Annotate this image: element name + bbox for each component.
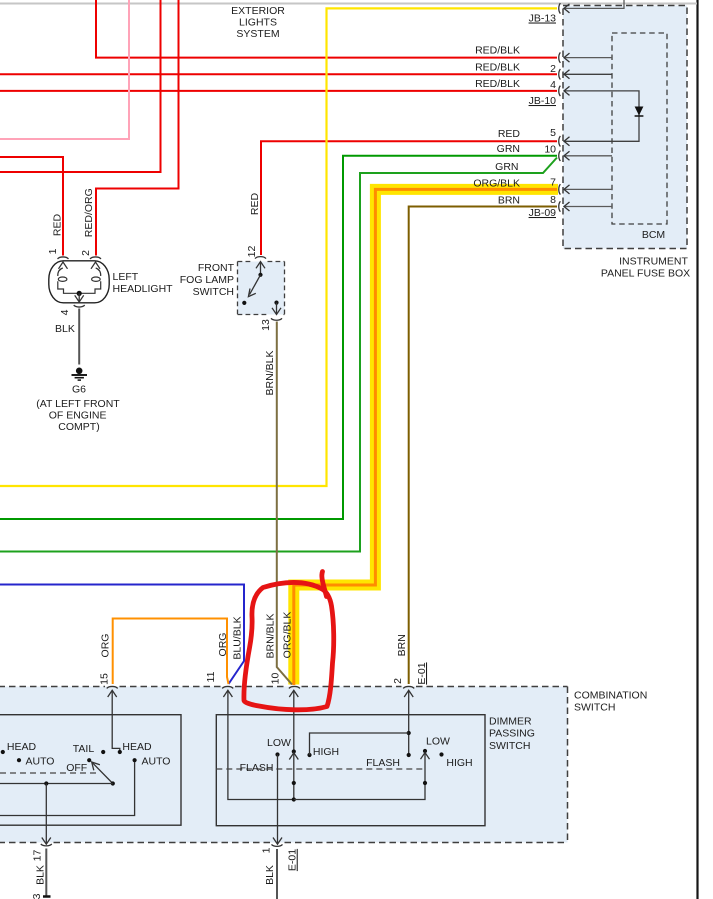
label FLASH left xyxy=(240,762,274,774)
svg-text:BRN: BRN xyxy=(396,634,408,656)
svg-text:2: 2 xyxy=(392,678,404,684)
pin 2 headlight xyxy=(80,250,92,256)
label JB-09 xyxy=(529,207,557,219)
wire YEL JB-13 to left edge xyxy=(0,8,557,486)
svg-text:TAIL: TAIL xyxy=(73,743,95,755)
label LOW left xyxy=(267,737,291,749)
pin 2 arrow and wire to flash contact xyxy=(404,690,413,755)
fog switch contact pin 12 xyxy=(258,273,262,277)
label G6 xyxy=(72,384,86,396)
svg-text:FOG LAMP: FOG LAMP xyxy=(180,274,234,286)
svg-text:RED: RED xyxy=(498,128,521,140)
svg-text:8: 8 xyxy=(550,194,556,206)
svg-text:LOW: LOW xyxy=(267,737,291,749)
svg-text:FLASH: FLASH xyxy=(366,757,400,769)
label RED/BLK row 3 xyxy=(475,78,520,90)
svg-text:JB-13: JB-13 xyxy=(529,13,557,25)
svg-text:ORG: ORG xyxy=(100,634,112,658)
headlight pin 1 arrow xyxy=(59,262,68,269)
svg-text:LEFT: LEFT xyxy=(113,271,139,283)
headlight pin 4 connector arc xyxy=(74,305,85,307)
label BLK pin 17 xyxy=(35,865,47,885)
svg-text:EXTERIOR: EXTERIOR xyxy=(231,5,285,17)
label COMBINATION SWITCH xyxy=(574,689,647,713)
svg-text:1: 1 xyxy=(47,248,59,254)
pin 10 fuse box xyxy=(544,143,556,155)
svg-text:BLK: BLK xyxy=(55,323,75,335)
label HIGH right xyxy=(446,757,472,769)
node E-01 bottom xyxy=(287,849,299,871)
fog switch pin 13 arrow down xyxy=(272,303,281,315)
label BRN/BLK rotated fog xyxy=(264,351,276,396)
label JB-10 xyxy=(529,95,557,107)
lighting switch rail to pin 17 xyxy=(0,781,113,844)
fuse box internal link pin 10 xyxy=(564,155,612,157)
pin 11 arrow and wire to lever rail xyxy=(223,690,293,799)
svg-text:PASSING: PASSING xyxy=(489,727,535,739)
wire BLK headlight to ground xyxy=(78,309,80,365)
fog switch contact pin 13 xyxy=(274,301,278,305)
label ORG/BLK rotated pin 10 xyxy=(281,612,293,659)
svg-text:SWITCH: SWITCH xyxy=(574,702,615,714)
svg-text:JB-09: JB-09 xyxy=(529,207,557,219)
node E-01 top xyxy=(416,662,428,684)
fuse box internal link row 1 xyxy=(564,57,612,59)
svg-text:11: 11 xyxy=(205,671,217,682)
combination pin 10 connector arc xyxy=(289,686,300,688)
pin 1 headlight xyxy=(47,248,59,254)
BCM box U1 xyxy=(612,33,667,224)
svg-text:15: 15 xyxy=(99,673,111,685)
fuse box internal link pin 7 xyxy=(564,188,612,190)
wire RED/BLK row 2 xyxy=(0,73,557,75)
dimmer contact HIGH left xyxy=(307,753,311,757)
svg-text:RED/BLK: RED/BLK xyxy=(475,62,520,74)
ground G6 xyxy=(72,368,88,381)
svg-text:HIGH: HIGH xyxy=(313,746,339,758)
wire ORG/BLK fuse pin 7 to combination switch pin 10 xyxy=(294,189,557,685)
svg-text:1: 1 xyxy=(261,847,273,853)
label GRN second xyxy=(495,161,518,173)
label LOW right xyxy=(426,736,450,748)
headlight pin 2 arrow xyxy=(91,262,100,269)
wire RED/BLK row 3 xyxy=(0,90,557,92)
svg-text:COMBINATION: COMBINATION xyxy=(574,689,647,701)
svg-text:SWITCH: SWITCH xyxy=(489,740,530,752)
lighting switch contact AUTO left xyxy=(17,758,21,762)
pin 17 terminal bar xyxy=(43,895,51,898)
wire BRN fuse pin 8 to dimmer pin 2 xyxy=(409,207,557,685)
diode D1 xyxy=(635,107,644,117)
fuse box internal link pin 8 xyxy=(564,206,612,208)
headlight pin 4 arrow down xyxy=(75,293,84,302)
svg-text:PANEL FUSE BOX: PANEL FUSE BOX xyxy=(601,268,690,280)
pin 17 label xyxy=(32,850,44,862)
pin 15 xyxy=(99,673,111,685)
label OFF xyxy=(66,762,87,774)
label BLK pin 1 xyxy=(264,865,276,885)
wire RED fog switch pin 12 to fuse box pin 5 xyxy=(261,141,557,255)
wire RED to left headlight pin 1 xyxy=(0,157,63,256)
dimmer passing switch inner box xyxy=(216,715,485,826)
label BRN/BLK rotated pin 10 xyxy=(265,614,277,659)
wire RED/BLK vertical from top xyxy=(96,0,557,58)
label GRN xyxy=(497,143,520,155)
wire BRN/BLK fog switch pin 13 to combination pin 10 xyxy=(277,322,292,685)
pin 15 arrow and wire to HEAD contact xyxy=(108,690,120,751)
label DIMMER PASSING SWITCH xyxy=(489,715,535,752)
svg-text:LOW: LOW xyxy=(426,736,450,748)
svg-text:OF ENGINE: OF ENGINE xyxy=(49,409,107,421)
label RED/BLK row 1 xyxy=(475,44,520,56)
label BLU/BLK rotated xyxy=(232,616,244,659)
combination pin 11 connector arc xyxy=(222,686,233,688)
svg-text:GRN: GRN xyxy=(495,161,518,173)
svg-text:FLASH: FLASH xyxy=(240,762,274,774)
svg-text:BRN/BLK: BRN/BLK xyxy=(265,614,277,659)
svg-text:LIGHTS: LIGHTS xyxy=(239,17,277,29)
label BLK headlight xyxy=(55,323,75,335)
instrument panel fuse box xyxy=(563,6,687,249)
label HEAD right xyxy=(122,741,152,753)
svg-text:3: 3 xyxy=(31,893,43,899)
label ORG rotated pin 15 xyxy=(100,634,112,658)
label AT LEFT FRONT OF ENGINE COMPT xyxy=(36,398,120,433)
label FRONT FOG LAMP SWITCH xyxy=(180,262,235,298)
lighting switch wire AUTO to left edge xyxy=(0,762,135,816)
svg-text:INSTRUMENT: INSTRUMENT xyxy=(619,255,688,267)
svg-text:RED: RED xyxy=(249,192,261,215)
label TAIL xyxy=(73,743,95,755)
label HEAD left xyxy=(7,741,37,753)
svg-text:AUTO: AUTO xyxy=(142,756,171,768)
label RED xyxy=(498,128,521,140)
label ORG rotated pin 11 xyxy=(217,633,229,657)
svg-text:BLK: BLK xyxy=(35,865,47,885)
wire BLU to combination switch pin 11 xyxy=(0,585,244,685)
pin 4 headlight xyxy=(59,309,71,315)
svg-text:2: 2 xyxy=(550,63,556,75)
label RED rotated fog xyxy=(249,192,261,215)
svg-text:4: 4 xyxy=(59,309,71,315)
svg-text:17: 17 xyxy=(32,850,44,862)
dimmer linkage dashed xyxy=(216,768,425,770)
wire BLK combination pin 17 xyxy=(45,849,47,896)
lighting switch contact AUTO right xyxy=(133,758,137,762)
connector arcs fuse box left edge xyxy=(559,3,561,212)
fuse box internal link JB-13 xyxy=(564,0,624,8)
svg-text:GRN: GRN xyxy=(497,143,520,155)
svg-text:E-01: E-01 xyxy=(416,662,428,684)
svg-text:BLU/BLK: BLU/BLK xyxy=(232,616,244,659)
lighting switch inner box xyxy=(0,715,181,826)
pin 10 arrow and dimmer left lever line xyxy=(289,690,298,799)
pin 7 fuse box xyxy=(550,177,556,189)
combination pin 1 connector arc xyxy=(272,844,283,846)
wire RED/ORG to left headlight pin 2 xyxy=(96,0,179,256)
pin 11 xyxy=(205,671,217,682)
label BRN xyxy=(498,194,520,206)
pin 1 label bottom xyxy=(261,847,273,853)
lighting switch lever xyxy=(92,762,115,786)
headlight pin 1 connector arc xyxy=(58,257,69,259)
svg-text:4: 4 xyxy=(550,79,556,91)
headlight pin 2 connector arc xyxy=(90,257,101,259)
fog switch pin 12 arrow xyxy=(256,262,265,275)
combination pin 15 connector arc xyxy=(107,686,118,688)
label RED/ORG rotated xyxy=(83,188,95,237)
svg-text:10: 10 xyxy=(544,143,556,155)
svg-text:7: 7 xyxy=(550,177,556,189)
fuse box internal link JB-10 to pin 5 through diode xyxy=(564,91,639,141)
wire GRN second to left edge xyxy=(0,158,557,552)
dimmer contact HIGH right xyxy=(439,752,443,756)
svg-text:DIMMER: DIMMER xyxy=(489,715,532,727)
label FLASH right xyxy=(366,757,400,769)
dimmer left lever dots and arrow xyxy=(289,749,298,801)
label BRN rotated pin 2 xyxy=(396,634,408,656)
wire BLK dimmer pin 1 to E-01 xyxy=(276,849,278,899)
lighting switch contact OFF xyxy=(87,758,91,762)
fog switch pin 13 connector arc xyxy=(271,318,282,320)
label HIGH left xyxy=(313,746,339,758)
svg-text:BCM: BCM xyxy=(642,229,665,241)
pin 4 fuse box xyxy=(550,79,556,91)
svg-text:HEADLIGHT: HEADLIGHT xyxy=(113,283,174,295)
dimmer contact LOW left xyxy=(275,752,279,756)
headlight low beam filament xyxy=(58,268,79,293)
combination pin 17 connector arc xyxy=(41,844,52,846)
wire grey top rail xyxy=(0,3,697,5)
svg-text:RED/ORG: RED/ORG xyxy=(83,188,95,237)
pin 5 fuse box xyxy=(550,127,556,139)
svg-text:12: 12 xyxy=(246,246,258,258)
svg-text:BRN/BLK: BRN/BLK xyxy=(264,351,276,396)
lighting switch contact HEAD left xyxy=(1,750,5,754)
highlight marker on ORG/BLK circuit xyxy=(294,189,558,684)
connector arrows fuse box pointing left xyxy=(564,4,570,211)
svg-text:HEAD: HEAD xyxy=(7,741,37,753)
node EXTERIOR LIGHTS SYSTEM xyxy=(231,5,285,40)
svg-text:5: 5 xyxy=(550,127,556,139)
svg-text:E-01: E-01 xyxy=(287,849,299,871)
svg-text:HEAD: HEAD xyxy=(122,741,152,753)
label JB-13 xyxy=(529,13,557,25)
label RED rotated headlight pin 1 xyxy=(52,213,64,236)
svg-text:OFF: OFF xyxy=(66,762,87,774)
fog switch pin 12 connector arc xyxy=(255,257,266,259)
pin 10 combination xyxy=(269,673,281,685)
label BCM xyxy=(642,229,665,241)
lighting switch linkage dashed xyxy=(0,772,97,774)
left headlight body xyxy=(49,261,109,303)
lighting switch contact TAIL xyxy=(101,750,105,754)
svg-text:BLK: BLK xyxy=(264,865,276,885)
headlight high beam filament xyxy=(79,268,101,293)
svg-text:ORG/BLK: ORG/BLK xyxy=(281,612,293,659)
svg-text:ORG: ORG xyxy=(217,633,229,657)
svg-text:G6: G6 xyxy=(72,384,86,396)
dimmer LOW left wire down to pin 1 xyxy=(273,755,282,845)
fog switch contact lower left xyxy=(242,301,246,305)
pin 2 combination xyxy=(392,678,404,684)
pin 13 fog xyxy=(260,319,272,331)
label AUTO right xyxy=(142,756,171,768)
page frame line right xyxy=(696,0,698,899)
label ORG/BLK xyxy=(473,178,520,190)
svg-text:FRONT: FRONT xyxy=(198,262,235,274)
svg-text:RED: RED xyxy=(52,213,64,236)
svg-text:RED/BLK: RED/BLK xyxy=(475,78,520,90)
svg-text:RED/BLK: RED/BLK xyxy=(475,44,520,56)
front fog lamp switch box xyxy=(238,262,285,315)
svg-text:SYSTEM: SYSTEM xyxy=(236,28,279,40)
wire GRN fuse pin 10 to left edge xyxy=(0,156,557,519)
pin 12 fog xyxy=(246,246,258,258)
label LEFT HEADLIGHT xyxy=(113,271,174,295)
svg-text:10: 10 xyxy=(269,673,281,685)
svg-text:AUTO: AUTO xyxy=(26,756,55,768)
svg-text:COMPT): COMPT) xyxy=(58,421,99,433)
svg-text:SWITCH: SWITCH xyxy=(193,286,234,298)
wire RED vertical to left edge xyxy=(0,0,161,172)
svg-text:JB-10: JB-10 xyxy=(529,95,557,107)
svg-text:13: 13 xyxy=(260,319,272,331)
fog switch lever xyxy=(248,275,260,297)
wire ORG staple pins 15 to 11 xyxy=(113,619,229,685)
svg-text:ORG/BLK: ORG/BLK xyxy=(473,178,520,190)
combination switch box xyxy=(0,687,568,843)
svg-text:HIGH: HIGH xyxy=(446,757,472,769)
dimmer branch pin2 to HIGH left xyxy=(310,731,411,757)
dimmer rail to right lever xyxy=(294,751,425,800)
label AUTO left xyxy=(26,756,55,768)
svg-text:(AT LEFT FRONT: (AT LEFT FRONT xyxy=(36,398,120,410)
annotation red circle xyxy=(244,572,334,710)
headlight common junction xyxy=(77,291,82,296)
wire PNK vertical from top xyxy=(0,0,129,139)
svg-text:2: 2 xyxy=(80,250,92,256)
dimmer right lever dots and arrow xyxy=(421,749,430,785)
combination pin 2 connector arc xyxy=(403,686,414,688)
pin 2 fuse box xyxy=(550,63,556,75)
svg-text:BRN: BRN xyxy=(498,194,520,206)
label RED/BLK row 2 xyxy=(475,62,520,74)
label INSTRUMENT PANEL FUSE BOX xyxy=(601,255,690,279)
pin 3 bottom xyxy=(31,893,43,899)
lighting switch contact HEAD right xyxy=(118,750,122,754)
pin 8 fuse box xyxy=(550,194,556,206)
fuse box internal link pin 2 xyxy=(564,73,612,75)
